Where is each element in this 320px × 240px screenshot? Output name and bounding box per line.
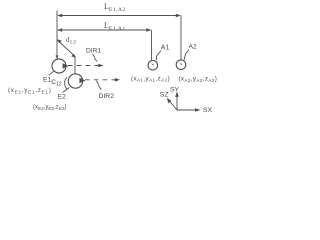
svg-text:SY: SY bbox=[170, 87, 180, 94]
svg-text:(xA1,yA1,zA1): (xA1,yA1,zA1) bbox=[131, 75, 170, 82]
dimension line L_E1,A2 bbox=[57, 14, 181, 18]
dashed direction line DIR2 bbox=[85, 79, 117, 81]
wire: short vertical extension above E2 bbox=[74, 58, 76, 74]
svg-text:E1: E1 bbox=[43, 76, 51, 83]
wire: left extension vertical line above E1 bbox=[56, 11, 58, 59]
direction arrowhead on E2 bbox=[79, 78, 85, 83]
leader from E2 label to circle bbox=[63, 88, 70, 93]
leader from A1 label to circle bbox=[156, 51, 161, 61]
center tick of A1 bbox=[152, 64, 153, 65]
emitter E1 (circle) bbox=[52, 59, 66, 73]
svg-text:SX: SX bbox=[203, 107, 213, 114]
wire: vertical extension from A1 up to L_E1,A1 bbox=[151, 30, 153, 61]
emitter E2 (circle) bbox=[68, 74, 82, 88]
svg-text:DIR1: DIR1 bbox=[86, 48, 101, 55]
svg-text:DIR2: DIR2 bbox=[99, 93, 115, 100]
leader from A2 label to circle bbox=[184, 50, 189, 60]
dimension arrow d_12 (diagonal double-headed) bbox=[57, 39, 76, 57]
svg-text:E2: E2 bbox=[58, 93, 66, 100]
direction arrowhead on E1 bbox=[63, 63, 69, 68]
axis SZ (diagonal arrow) bbox=[170, 101, 178, 110]
receiver A1 (circle) bbox=[148, 60, 158, 70]
arrowhead at E1 top junction bbox=[56, 55, 59, 59]
dimension line L_E1,A1 bbox=[57, 28, 152, 32]
receiver A2 (circle) bbox=[176, 60, 186, 70]
wire: vertical extension from A2 up to L_E1,A2 bbox=[180, 16, 182, 60]
svg-text:C12: C12 bbox=[51, 79, 62, 87]
axis SX (horizontal arrow) bbox=[177, 109, 197, 111]
svg-text:LE1,A2: LE1,A2 bbox=[104, 2, 126, 13]
leader from DIR1 label to line bbox=[93, 54, 98, 61]
dashed direction line DIR1 bbox=[68, 65, 100, 67]
svg-text:(xA2,yA2,zA2): (xA2,yA2,zA2) bbox=[179, 76, 218, 83]
axis SY (vertical arrow) bbox=[176, 96, 178, 111]
svg-text:A2: A2 bbox=[189, 44, 198, 51]
svg-text:SZ: SZ bbox=[160, 91, 169, 98]
leader from E1 label to circle bbox=[49, 71, 54, 75]
svg-text:d12: d12 bbox=[66, 36, 77, 45]
svg-text:(xE2,yE2,zE2): (xE2,yE2,zE2) bbox=[33, 105, 67, 111]
svg-text:(xE1,yE1,zE1): (xE1,yE1,zE1) bbox=[8, 87, 51, 94]
svg-text:A1: A1 bbox=[161, 44, 170, 51]
center tick of A2 bbox=[180, 63, 181, 64]
leader from DIR2 label to line bbox=[96, 81, 101, 90]
brace mark beside C_12 bbox=[65, 77, 67, 89]
